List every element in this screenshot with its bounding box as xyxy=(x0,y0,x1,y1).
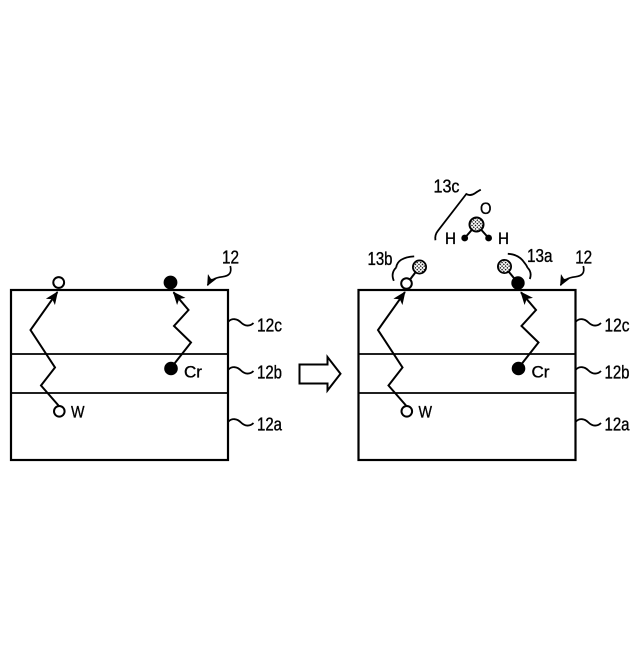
svg-text:Cr: Cr xyxy=(532,362,550,381)
left W zigzag diffusion arrow xyxy=(31,292,59,405)
svg-text:12b: 12b xyxy=(257,363,282,383)
svg-text:12a: 12a xyxy=(605,415,631,435)
hatched oxygen atom 13a xyxy=(498,260,511,273)
right layer boundary 12c/12b xyxy=(359,353,576,355)
right W atom circle xyxy=(402,406,413,417)
left Cr zigzag diffusion arrow xyxy=(174,292,192,363)
bond open circle to hatched atom 13b xyxy=(407,267,420,284)
bond filled circle to hatched atom 13a xyxy=(505,267,519,284)
svg-text:H: H xyxy=(498,229,509,248)
squiggle leader 12c left xyxy=(229,319,254,325)
right surface filled circle xyxy=(512,277,524,289)
left Cr atom circle xyxy=(165,362,178,375)
left W atom circle xyxy=(54,406,65,417)
brace leader 13a xyxy=(508,254,531,279)
svg-text:13c: 13c xyxy=(434,176,460,196)
squiggle leader 12a right xyxy=(576,419,601,425)
water molecule bond left xyxy=(465,225,477,239)
svg-text:12b: 12b xyxy=(605,363,630,383)
right surface open circle xyxy=(401,278,412,289)
squiggle leader 12a left xyxy=(229,419,254,425)
right Cr zigzag diffusion arrow xyxy=(521,292,539,363)
water molecule hydrogen atom right xyxy=(485,235,492,242)
left layer boundary 12b/12a xyxy=(11,392,228,394)
squiggle leader 12b left xyxy=(229,367,254,373)
leader arrow from 12 to left box xyxy=(208,266,231,285)
svg-text:13a: 13a xyxy=(527,246,553,266)
brace leader 13b xyxy=(393,256,415,280)
svg-text:12: 12 xyxy=(575,248,592,268)
left surface filled circle xyxy=(164,276,177,289)
left layer boundary 12c/12b xyxy=(11,353,228,355)
svg-text:H: H xyxy=(445,229,456,248)
svg-text:13b: 13b xyxy=(368,249,393,269)
svg-text:12c: 12c xyxy=(257,316,282,336)
svg-text:W: W xyxy=(419,403,433,422)
water molecule hydrogen atom left xyxy=(461,235,468,242)
svg-text:W: W xyxy=(71,403,85,422)
svg-text:12c: 12c xyxy=(605,316,630,336)
leader line from 13c to water molecule xyxy=(435,190,481,241)
big hollow transition arrow xyxy=(300,357,341,391)
left surface open circle xyxy=(53,277,64,288)
svg-text:Cr: Cr xyxy=(184,362,202,381)
water molecule bond right xyxy=(477,225,489,239)
svg-text:12a: 12a xyxy=(257,415,283,435)
left layered box 12 xyxy=(11,290,228,460)
right W zigzag diffusion arrow xyxy=(378,292,406,405)
right layered box 12 xyxy=(359,290,576,460)
squiggle leader 12c right xyxy=(576,319,601,325)
water molecule oxygen hatched circle xyxy=(470,218,484,232)
hatched oxygen atom 13b xyxy=(413,260,426,273)
right Cr atom circle xyxy=(512,362,525,375)
svg-text:O: O xyxy=(480,199,492,218)
svg-text:12: 12 xyxy=(222,248,239,268)
leader arrow from 12 to right box xyxy=(561,266,584,285)
right layer boundary 12b/12a xyxy=(359,392,576,394)
squiggle leader 12b right xyxy=(576,367,601,373)
